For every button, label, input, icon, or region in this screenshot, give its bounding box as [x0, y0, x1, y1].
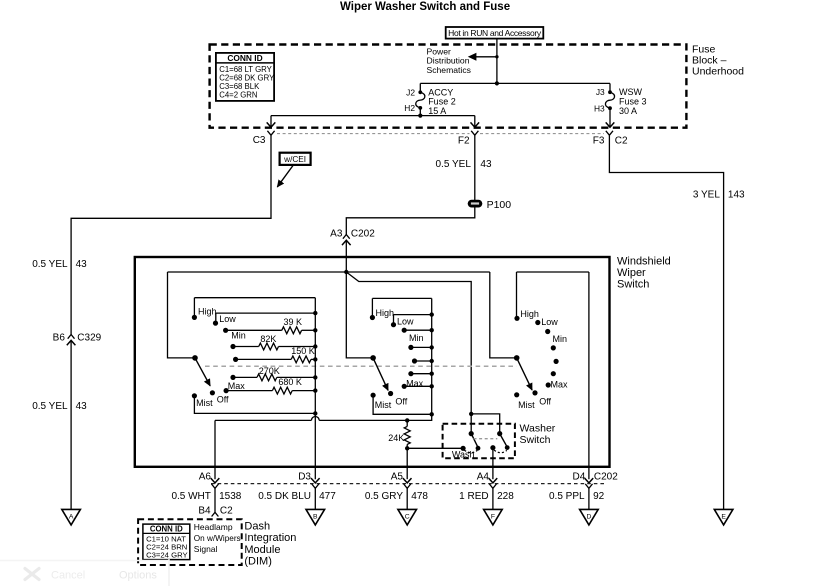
svg-text:A4: A4 — [477, 472, 490, 483]
svg-text:Mist: Mist — [375, 400, 392, 410]
svg-text:Washer: Washer — [520, 422, 556, 434]
svg-text:P100: P100 — [487, 199, 512, 211]
svg-text:Mist: Mist — [196, 398, 213, 408]
svg-text:Off: Off — [395, 396, 407, 406]
svg-text:Mist: Mist — [518, 400, 535, 410]
svg-text:F3: F3 — [593, 135, 605, 146]
svg-text:C202: C202 — [594, 472, 618, 483]
svg-text:High: High — [198, 307, 217, 317]
svg-text:B4: B4 — [198, 506, 211, 517]
svg-text:Wiper Washer Switch and Fuse: Wiper Washer Switch and Fuse — [340, 1, 510, 13]
svg-text:C4=2 GRN: C4=2 GRN — [219, 90, 257, 99]
svg-text:Cancel: Cancel — [51, 570, 85, 582]
svg-text:0.5 GRY: 0.5 GRY — [365, 491, 403, 502]
svg-text:A6: A6 — [199, 472, 212, 483]
svg-text:(DIM): (DIM) — [244, 556, 272, 568]
svg-text:A: A — [69, 514, 74, 521]
svg-text:0.5 PPL: 0.5 PPL — [549, 491, 585, 502]
svg-text:Integration: Integration — [244, 532, 296, 544]
svg-text:Min: Min — [231, 331, 246, 341]
svg-text:0.5 YEL: 0.5 YEL — [32, 401, 68, 412]
svg-text:Schematics: Schematics — [427, 65, 471, 75]
svg-text:F: F — [491, 514, 495, 521]
svg-text:Module: Module — [244, 544, 280, 556]
svg-text:F2: F2 — [458, 135, 470, 146]
svg-text:C2: C2 — [615, 135, 628, 146]
svg-text:Switch: Switch — [520, 434, 551, 446]
svg-text:Signal: Signal — [194, 544, 218, 554]
svg-text:92: 92 — [593, 491, 605, 502]
svg-text:H2: H2 — [404, 103, 415, 113]
svg-text:Dash: Dash — [244, 520, 270, 532]
svg-text:B: B — [313, 514, 318, 521]
svg-text:Off: Off — [217, 395, 229, 405]
svg-text:82K: 82K — [260, 334, 276, 344]
svg-text:228: 228 — [497, 491, 514, 502]
svg-text:478: 478 — [411, 491, 428, 502]
svg-text:0.5 YEL: 0.5 YEL — [32, 259, 68, 270]
svg-text:C3: C3 — [253, 135, 266, 146]
svg-text:Windshield: Windshield — [617, 255, 671, 267]
svg-text:C: C — [405, 514, 410, 521]
svg-text:CONN ID: CONN ID — [150, 525, 183, 534]
svg-text:150 K: 150 K — [291, 346, 315, 356]
svg-text:C329: C329 — [77, 332, 101, 343]
svg-text:43: 43 — [76, 401, 88, 412]
svg-text:w/CEI: w/CEI — [283, 155, 306, 164]
svg-text:Max: Max — [551, 380, 569, 390]
svg-text:39 K: 39 K — [284, 317, 303, 327]
svg-text:CONN ID: CONN ID — [227, 53, 262, 63]
svg-text:On w/Wipers: On w/Wipers — [194, 534, 241, 543]
svg-text:Options: Options — [119, 570, 157, 582]
svg-text:Min: Min — [553, 334, 568, 344]
svg-text:Low: Low — [541, 317, 558, 327]
svg-text:30 A: 30 A — [619, 106, 637, 116]
svg-text:24K: 24K — [388, 433, 404, 443]
svg-text:43: 43 — [480, 159, 492, 170]
svg-text:0.5 DK BLU: 0.5 DK BLU — [258, 491, 311, 502]
svg-text:C3=24 GRY: C3=24 GRY — [146, 550, 188, 559]
svg-text:Wiper: Wiper — [617, 267, 646, 279]
svg-text:D4: D4 — [573, 472, 586, 483]
svg-text:A3: A3 — [330, 228, 343, 239]
svg-text:B6: B6 — [53, 332, 66, 343]
svg-text:43: 43 — [76, 259, 88, 270]
svg-text:J2: J2 — [406, 87, 415, 97]
svg-text:1 RED: 1 RED — [459, 491, 488, 502]
svg-text:C2: C2 — [220, 506, 233, 517]
svg-text:Max: Max — [228, 381, 246, 391]
svg-text:680 K: 680 K — [278, 377, 302, 387]
svg-text:0.5 YEL: 0.5 YEL — [435, 159, 471, 170]
svg-text:C202: C202 — [351, 228, 375, 239]
svg-text:477: 477 — [319, 491, 336, 502]
svg-text:1538: 1538 — [219, 491, 242, 502]
svg-text:Off: Off — [539, 396, 551, 406]
svg-text:E: E — [721, 514, 726, 521]
svg-text:Low: Low — [397, 316, 414, 326]
svg-text:143: 143 — [728, 190, 745, 201]
svg-text:Underhood: Underhood — [692, 66, 744, 78]
svg-text:0.5 WHT: 0.5 WHT — [171, 491, 210, 502]
svg-text:J3: J3 — [596, 87, 605, 97]
svg-text:3 YEL: 3 YEL — [693, 190, 720, 201]
svg-text:D: D — [586, 514, 591, 521]
svg-text:High: High — [376, 308, 395, 318]
svg-text:Headlamp: Headlamp — [194, 522, 233, 532]
svg-text:Low: Low — [219, 314, 236, 324]
svg-text:High: High — [520, 309, 539, 319]
svg-text:15 A: 15 A — [428, 106, 446, 116]
svg-text:270K: 270K — [259, 366, 280, 376]
svg-text:D3: D3 — [298, 472, 311, 483]
svg-text:Hot in RUN and Accessory: Hot in RUN and Accessory — [448, 28, 542, 38]
svg-text:A5: A5 — [391, 472, 404, 483]
svg-text:Switch: Switch — [617, 278, 649, 290]
svg-text:Min: Min — [409, 333, 424, 343]
svg-text:H3: H3 — [594, 103, 605, 113]
svg-text:Max: Max — [406, 378, 424, 388]
